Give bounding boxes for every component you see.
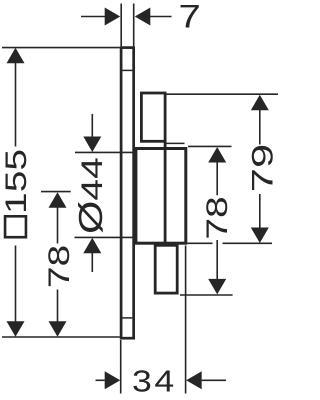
- dim 78 right: up arrow: [208, 147, 226, 163]
- dim 79: top extension line: [167, 93, 279, 95]
- label 79 (rotated): [245, 144, 279, 192]
- svg-text:79: 79: [245, 144, 278, 192]
- dim 44: bottom extension line: [75, 236, 133, 238]
- dim 79: line upper segment: [259, 110, 261, 145]
- label diameter-44 (rotated): [72, 157, 109, 234]
- dim 78 left: up arrow: [49, 192, 67, 208]
- dim 34: left arrow (right): [105, 371, 121, 389]
- dim 155: top extension line: [2, 47, 120, 49]
- dim 78 left: down arrow: [49, 321, 67, 337]
- dim 44: top extension line: [75, 151, 133, 153]
- label 7 (top): [178, 0, 200, 34]
- plate inner line bottom: [122, 317, 132, 319]
- label square-155 (rotated): [0, 149, 33, 237]
- dim 7: left extension line: [120, 4, 122, 47]
- svg-text:Ø44: Ø44: [72, 157, 109, 234]
- dim 78 right: bottom extension line: [180, 294, 233, 296]
- dim 34: right extension line: [185, 246, 187, 394]
- plate inner line top: [122, 69, 132, 71]
- step line right of upper knob: [166, 142, 184, 144]
- wall plate (side view, 7mm thick): [121, 48, 134, 339]
- dim 78 right: down arrow: [208, 279, 226, 295]
- dim 155: line lower segment: [15, 246, 17, 323]
- label 78 left (rotated): [43, 245, 76, 288]
- dim 34: right arrow (left): [186, 371, 202, 389]
- dim 78 right: line lower segment: [216, 240, 218, 280]
- dim 79: bottom extension line seg2: [223, 242, 273, 244]
- dim 7: right arrow (left): [135, 8, 151, 26]
- dim 44: bottom tail: [91, 252, 93, 272]
- dim 34: left extension line: [120, 340, 122, 394]
- dim 78 right: top extension line: [188, 145, 232, 147]
- lower knob: [155, 245, 177, 293]
- dim 155: up arrow: [7, 48, 25, 64]
- valve body block: [136, 149, 186, 244]
- dim 79: bottom extension line seg1: [187, 242, 212, 244]
- upper knob right edge continuation: [164, 141, 167, 243]
- dim 78 left: extension line (plate centre): [41, 191, 71, 193]
- dim 155: down arrow: [7, 321, 25, 337]
- dim 79: line lower segment: [259, 194, 261, 229]
- dim 34: right tail: [202, 379, 226, 381]
- dim 78 left: line lower segment: [57, 290, 59, 323]
- svg-text:78: 78: [43, 245, 76, 288]
- svg-text:78: 78: [201, 196, 234, 239]
- label 34 (bottom): [132, 365, 177, 399]
- dim 7: right tail: [149, 16, 171, 18]
- dim 7: right extension line: [133, 4, 135, 47]
- dim 7: left tail: [81, 16, 106, 18]
- svg-text:7: 7: [178, 0, 200, 34]
- dim 79: up arrow: [251, 95, 269, 111]
- svg-text:34: 34: [132, 365, 177, 399]
- dim 44: bottom arrow (up): [83, 238, 101, 254]
- label 78 right (rotated): [201, 196, 234, 239]
- dim 78 left: line upper segment: [57, 207, 59, 244]
- dim 44: top arrow (down): [83, 137, 101, 153]
- dim 79: down arrow: [251, 228, 269, 244]
- dim 44: top tail: [91, 114, 93, 138]
- dim 155: bottom extension line: [2, 336, 120, 338]
- svg-text:155: 155: [0, 149, 33, 214]
- dim 7: left arrow (right): [105, 8, 121, 26]
- dim 155: line upper segment: [15, 62, 17, 147]
- dim 78 right: line upper segment: [216, 162, 218, 196]
- dim 34: left tail: [96, 379, 105, 381]
- upper knob: [141, 93, 165, 141]
